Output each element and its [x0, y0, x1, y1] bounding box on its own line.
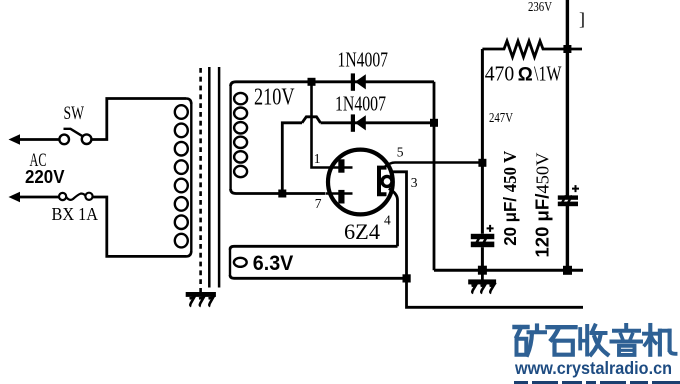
- transformer T1 primary winding: [175, 102, 192, 252]
- node: junction 210V bottom: [278, 190, 286, 198]
- wire hop (jump over) on D2 line: [302, 117, 321, 123]
- wire: bottom AC lead to fuse: [17, 196, 59, 199]
- glyph shi: [548, 327, 576, 355]
- wire: primary bottom curl: [186, 251, 191, 256]
- svg-text:5: 5: [397, 145, 404, 160]
- node: ground junction C1: [478, 266, 487, 275]
- svg-text:1: 1: [314, 151, 321, 166]
- svg-text:20 μF/ 450 V: 20 μF/ 450 V: [500, 150, 520, 245]
- glyph ji: [644, 325, 676, 355]
- tube plate 1 (pin 1): [338, 159, 344, 172]
- ground symbol under transformer core: [186, 292, 216, 306]
- fuse BX right cap: [85, 193, 92, 200]
- svg-text:247V: 247V: [489, 111, 513, 126]
- switch SW right contact: [82, 134, 92, 144]
- svg-text:6.3V: 6.3V: [253, 252, 293, 275]
- transformer core solid line 1: [208, 67, 211, 288]
- wire: heater pin 4 down to 6.3V top lead: [389, 189, 398, 247]
- wire: heater pin 3 to heater rail: [390, 172, 583, 307]
- svg-text:236V: 236V: [528, 0, 552, 15]
- capacitor C2 120uF/450V plates: [558, 195, 578, 206]
- watermark logo text (hand-drawn glyphs): [515, 325, 676, 355]
- node: output junction at resistor right: [563, 45, 571, 53]
- glyph kuang: [515, 326, 546, 355]
- wire: 6.3V bottom lead to heater node: [230, 275, 407, 278]
- transformer 210V secondary winding: [231, 85, 248, 190]
- tube heater circle: [382, 176, 392, 186]
- fuse BX wavy element: [66, 194, 85, 200]
- wire: primary top curl: [186, 99, 191, 105]
- wire: pin5 node vertical / resistor left leg: [481, 49, 484, 234]
- svg-text:Ω: Ω: [518, 63, 533, 85]
- svg-text:7: 7: [315, 196, 322, 211]
- wire: fuse to corner, down, right to transformer primary bottom: [92, 197, 186, 256]
- node: junction D2 / return bus: [430, 119, 438, 127]
- wire: vertical from top junction down to tube pin 1: [312, 82, 353, 168]
- wire: pin 7 lead stub inside tube: [326, 192, 353, 195]
- wire: C1 bottom to ground rail: [481, 247, 484, 270]
- transformer core dashed line: [199, 68, 202, 292]
- svg-text:SW: SW: [64, 103, 85, 124]
- wire: top AC lead to switch: [17, 138, 59, 141]
- resistor R1 470 ohm: [482, 41, 582, 57]
- diode D1 1N4007 (cathode left): [351, 73, 366, 90]
- node: junction 210V top / anode line: [308, 78, 316, 86]
- svg-text:BX 1A: BX 1A: [52, 204, 99, 224]
- svg-text:1N4007: 1N4007: [335, 92, 386, 116]
- fuse BX left cap: [59, 193, 66, 200]
- tube cathode (pin 5): [379, 168, 387, 195]
- node: heater / 6.3V junction: [403, 274, 411, 282]
- capacitor C2 polarity +: [572, 185, 579, 192]
- watermark bottom cropped dashes: [514, 381, 680, 384]
- svg-text:210V: 210V: [254, 85, 295, 111]
- AC input terminal arrow top: [9, 134, 21, 144]
- svg-text:]: ]: [579, 9, 585, 29]
- wire: 210V top lead to diode D1 line: [231, 82, 434, 86]
- svg-text:1N4007: 1N4007: [338, 47, 389, 71]
- transformer core solid line 2: [218, 67, 221, 288]
- node: cathode output junction: [478, 159, 486, 167]
- svg-text:4: 4: [384, 212, 391, 227]
- wire: cathode to pin 5 line: [385, 163, 483, 168]
- diode D2 1N4007 (cathode left): [351, 114, 366, 131]
- wire: 210V bottom lead to tube pin 7: [231, 189, 326, 194]
- wire: 6.3V top lead to pin 4: [230, 246, 398, 249]
- wire: C2 bottom to ground rail: [566, 206, 569, 270]
- wire: B+ output vertical: [566, 0, 569, 196]
- switch SW lever: [64, 129, 83, 136]
- tube 6Z4 envelope: [328, 150, 393, 215]
- svg-text:220V: 220V: [25, 167, 65, 187]
- svg-text:120 μF/450V: 120 μF/450V: [533, 153, 553, 258]
- tube plate 2 (pin 7): [338, 190, 344, 204]
- node: ground junction C2: [563, 266, 572, 275]
- svg-text:3: 3: [411, 175, 418, 190]
- wire: switch to corner, up, right to transformer primary top: [92, 99, 187, 140]
- ground rail: [434, 269, 583, 272]
- svg-text:470: 470: [485, 61, 515, 85]
- svg-text:www.crystalradio.cn: www.crystalradio.cn: [514, 358, 672, 378]
- svg-text:\1W: \1W: [534, 61, 562, 85]
- ground symbol main: [468, 270, 496, 293]
- AC input terminal arrow bottom: [9, 192, 21, 202]
- capacitor C1 polarity +: [487, 225, 494, 232]
- transformer 6.3V winding: [230, 249, 247, 276]
- wire: return bus from D1 line down to ground rail: [433, 82, 436, 270]
- switch SW left contact: [59, 135, 69, 145]
- glyph shou: [580, 326, 607, 355]
- glyph yin: [612, 325, 642, 355]
- wire: vertical from bottom junction up to D2 line: [282, 123, 302, 194]
- wire: D2 line from hop to return bus: [321, 121, 435, 124]
- capacitor C1 20uF/450V plates: [471, 234, 495, 247]
- svg-text:6Z4: 6Z4: [344, 219, 380, 244]
